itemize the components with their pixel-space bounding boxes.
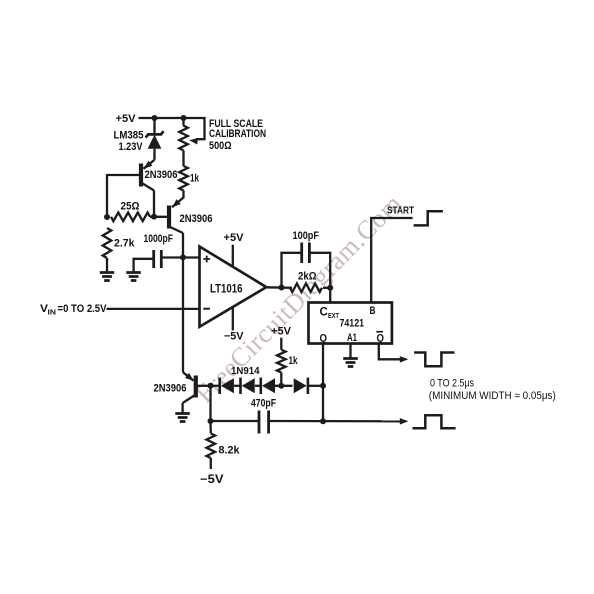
wire 2k to Cext node <box>323 287 330 289</box>
wire LT1016 output <box>266 286 292 289</box>
diode D4 1N914 <box>294 378 308 394</box>
svg-text:Q: Q <box>377 333 385 345</box>
waveform START step <box>414 211 443 225</box>
ground 1000pF <box>126 273 141 281</box>
label 8.2k <box>219 445 241 457</box>
svg-text:2.7k: 2.7k <box>114 238 135 250</box>
svg-text:470pF: 470pF <box>251 397 276 409</box>
svg-text:LM385: LM385 <box>114 129 144 141</box>
wire Q3 collector to ground <box>181 403 183 414</box>
label LT1016 -5V <box>224 331 244 343</box>
label VIN <box>40 303 107 317</box>
label pin Qbar <box>376 332 384 345</box>
svg-text:−5V: −5V <box>224 331 244 343</box>
svg-text:74121: 74121 <box>340 318 365 330</box>
waveform positive pulse <box>413 415 456 428</box>
capacitor 470pF <box>259 411 269 434</box>
svg-text:1k: 1k <box>289 355 299 367</box>
transistor Q3 collector <box>183 395 196 404</box>
wire D4 to Q node <box>308 385 323 387</box>
label Q2 2N3906 <box>180 213 213 225</box>
svg-text:B: B <box>370 305 376 317</box>
diode D1 1N914 <box>220 378 234 394</box>
wire 8.2k to -5V <box>210 458 212 469</box>
wire bottom node to 8.2k <box>209 421 212 434</box>
label LM385 <box>114 129 144 141</box>
wire LT1016 +5V stem <box>232 245 234 267</box>
wire diode row down left <box>209 386 211 421</box>
diode D3 1N914 <box>261 378 275 394</box>
transistor Q2 2N3906 bar <box>167 206 171 229</box>
svg-text:Q: Q <box>320 333 328 345</box>
label LT1016 - input <box>203 308 210 310</box>
wire Q pin down <box>322 344 324 386</box>
svg-text:25Ω: 25Ω <box>121 200 140 212</box>
potentiometer wiper arrow <box>189 138 198 145</box>
node top rail / LM385 <box>152 115 158 121</box>
resistor 1k bottom <box>277 350 286 373</box>
svg-text:100pF: 100pF <box>293 230 320 242</box>
wire 1000pF left <box>134 259 154 273</box>
transistor Q1 emitter arrow <box>144 161 153 169</box>
wire feedback loop right <box>309 253 330 288</box>
label Cext <box>320 307 340 321</box>
wire 1k to Q2 emitter <box>172 190 184 207</box>
diode D2 1N914 <box>241 378 255 394</box>
wire VIN to - input <box>107 308 200 310</box>
svg-text:0 TO 2.5μs: 0 TO 2.5μs <box>430 377 474 389</box>
ground Q3 <box>175 414 190 422</box>
node 25ohm left <box>104 214 110 220</box>
label 2k ohm <box>298 270 317 282</box>
wire D1-D2 <box>234 385 241 387</box>
svg-text:1000pF: 1000pF <box>144 233 174 245</box>
IC 74121 box <box>309 303 392 344</box>
svg-text:2N3906: 2N3906 <box>154 383 187 395</box>
svg-text:2N3906: 2N3906 <box>180 213 213 225</box>
svg-text:(MINIMUM WIDTH ≈ 0.05μs): (MINIMUM WIDTH ≈ 0.05μs) <box>429 390 556 402</box>
zener diode LM385 1.23V <box>146 131 164 149</box>
wire Cext pin <box>329 288 331 303</box>
wire rail to pot top <box>182 118 184 126</box>
node top rail / 500 pot <box>181 115 187 121</box>
arrow Qbar output <box>400 356 409 363</box>
label 74121 <box>340 318 365 330</box>
svg-text:500Ω: 500Ω <box>209 140 232 152</box>
node diode row / Q pin <box>320 383 326 389</box>
label 500 <box>209 140 232 152</box>
resistor 1k top <box>179 166 188 190</box>
transistor Q3 2N3906 bar <box>194 376 198 398</box>
label 100pF <box>293 230 320 242</box>
resistor 2k ohm <box>290 284 322 293</box>
label LT1016 + input <box>203 256 210 263</box>
node bottom rail left <box>208 418 214 424</box>
node 25ohm right <box>151 214 157 220</box>
label LT1016 <box>210 284 243 296</box>
wire zener to Q1 emitter <box>153 149 155 160</box>
label pin B <box>370 305 376 317</box>
wire Q2 collector down <box>182 233 184 257</box>
wire D3 to 1k node <box>275 385 293 387</box>
label 1k bottom <box>289 355 299 367</box>
wire bottom rail to cap <box>211 420 260 422</box>
transistor Q1 2N3906 bar <box>139 164 143 187</box>
wire Q3 base <box>196 385 211 387</box>
label 2.7k <box>114 238 135 250</box>
label +5V bottom <box>271 326 292 338</box>
svg-text:START: START <box>387 205 414 217</box>
wire cap to bottom right <box>269 420 403 423</box>
node output junction <box>279 285 285 291</box>
transistor Q2 collector <box>169 227 183 234</box>
wire 25ohm to Q2 base <box>150 216 169 218</box>
label MINIMUM WIDTH <box>429 390 556 402</box>
wire B pin to START <box>371 218 412 303</box>
svg-text:2N3906: 2N3906 <box>145 169 178 181</box>
svg-text:C: C <box>320 307 328 319</box>
resistor 2.7k <box>103 228 112 258</box>
wire pot to 1k <box>182 150 184 166</box>
label 1k top <box>190 173 200 185</box>
wire Q node down <box>322 386 324 421</box>
label START <box>387 205 414 217</box>
node bottom rail right <box>320 418 326 424</box>
wire to D1 <box>211 385 220 387</box>
svg-text:1N914: 1N914 <box>231 365 260 377</box>
svg-text:EXT: EXT <box>328 311 339 320</box>
wire +5V top rail <box>139 118 205 139</box>
label -5V bottom <box>200 474 224 486</box>
node 2k / Cext <box>327 285 333 291</box>
op-amp LT1016 triangle <box>200 247 267 327</box>
label 25 ohm <box>121 200 140 212</box>
svg-text:2kΩ: 2kΩ <box>298 270 317 282</box>
transistor Q2 emitter arrow <box>172 199 181 207</box>
wire LT1016 -5V stem <box>232 307 234 331</box>
label 1.23V <box>119 141 144 153</box>
label CALIBRATION <box>209 128 266 140</box>
wire D2-D3 <box>255 385 261 387</box>
transistor Q1 emitter <box>144 160 155 169</box>
transistor Q3 emitter arrow <box>185 373 194 381</box>
svg-text:+5V: +5V <box>116 113 137 125</box>
arrow bottom rail output <box>400 418 409 425</box>
wire 1k bottom to diode row <box>280 372 282 385</box>
label Q3 2N3906 <box>154 383 187 395</box>
wire Q1 collector down <box>153 191 155 217</box>
svg-text:LT1016: LT1016 <box>210 284 243 296</box>
svg-text:A1: A1 <box>347 332 357 344</box>
node diode row left <box>208 383 214 389</box>
svg-text:1.23V: 1.23V <box>119 141 144 153</box>
svg-text:=0 TO 2.5V: =0 TO 2.5V <box>58 303 108 315</box>
svg-text:1k: 1k <box>190 173 200 185</box>
transistor Q1 collector <box>141 183 154 191</box>
label 470pF <box>251 397 276 409</box>
svg-text:−5V: −5V <box>200 474 224 486</box>
power +5V rail label <box>116 113 137 125</box>
capacitor 1000pF <box>154 250 162 268</box>
resistor 25 ohm <box>111 213 150 222</box>
label Q1 2N3906 <box>145 169 178 181</box>
wire A1 to ground <box>349 344 351 359</box>
label 1000pF <box>144 233 174 245</box>
svg-text:CALIBRATION: CALIBRATION <box>209 128 266 140</box>
watermark FreeCircuitDiagram.Com <box>189 188 408 408</box>
svg-text:IN: IN <box>48 308 57 317</box>
svg-text:+5V: +5V <box>224 232 245 244</box>
wire +5V to zener <box>153 118 155 134</box>
node Q2 collector / + input <box>180 254 186 260</box>
transistor Q3 emitter <box>183 372 194 380</box>
label pin A1 <box>347 332 357 344</box>
waveform negative pulse <box>414 353 454 367</box>
node diode row / 1k <box>278 383 284 389</box>
label 0 TO 2.5us <box>430 377 474 389</box>
ground 2.7k <box>100 273 114 281</box>
wire Q1 base left <box>107 175 141 217</box>
label FULL SCALE <box>209 118 263 130</box>
capacitor 100pF <box>302 243 310 264</box>
wire +5V to 1k bottom <box>280 338 282 350</box>
wire 1000pF to comparator + <box>161 256 199 258</box>
label pin Q <box>320 333 328 345</box>
wire Qbar output <box>379 344 403 360</box>
wire feedback loop left <box>282 253 302 288</box>
svg-text:+5V: +5V <box>271 326 292 338</box>
wire 2.7k to ground <box>106 258 108 273</box>
ground A1 <box>343 359 358 367</box>
svg-text:8.2k: 8.2k <box>219 445 241 457</box>
wire Q2 collector to Q3 <box>182 257 184 372</box>
resistor 8.2k <box>207 434 216 459</box>
label 1N914 <box>231 365 260 377</box>
label LT1016 +5V <box>224 232 245 244</box>
potentiometer 500 body <box>179 126 188 151</box>
